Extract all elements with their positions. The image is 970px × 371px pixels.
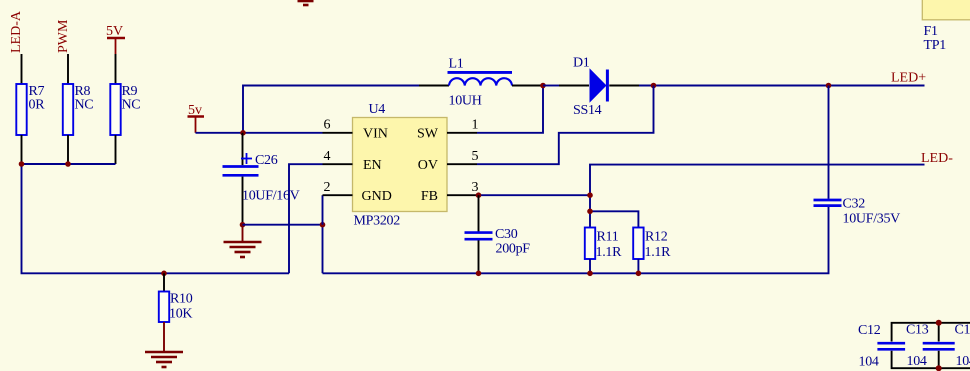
wire ground bus right	[323, 207, 829, 273]
svg-text:F1: F1	[924, 24, 938, 39]
svg-text:104: 104	[907, 354, 927, 369]
svg-text:NC: NC	[122, 97, 141, 112]
junction R11 bottom	[587, 271, 593, 277]
svg-text:C13: C13	[906, 323, 929, 338]
svg-text:C1: C1	[955, 323, 970, 338]
svg-text:OV: OV	[418, 158, 438, 173]
svg-text:R12: R12	[645, 230, 668, 245]
ground under C26	[224, 225, 262, 257]
svg-text:MP3202: MP3202	[354, 214, 401, 229]
svg-text:NC: NC	[75, 97, 94, 112]
svg-text:FB: FB	[421, 189, 438, 204]
svg-text:C26: C26	[255, 153, 278, 168]
svg-text:LED-A: LED-A	[9, 10, 24, 53]
junction R7 bus	[19, 161, 25, 167]
resistor R10	[159, 273, 193, 322]
wire bus under R7-R9	[22, 163, 116, 165]
junction GND riser	[320, 222, 326, 228]
pin 5 OV	[418, 149, 479, 173]
capacitor C30	[465, 195, 531, 273]
svg-text:EN: EN	[363, 158, 382, 173]
IC U4 (MP3202) body	[353, 102, 448, 229]
resistor R8	[63, 54, 94, 164]
capacitor C13	[906, 323, 955, 370]
junction C30 bottom	[476, 271, 482, 277]
junction R8 bus	[65, 161, 71, 167]
junction FB/LED-	[587, 192, 593, 198]
svg-text:104: 104	[956, 354, 970, 369]
wire LED+ to C32	[828, 86, 830, 199]
junction 5v/VIN/C26	[240, 130, 246, 136]
wire LED- rail	[590, 165, 925, 196]
svg-text:10K: 10K	[169, 307, 192, 322]
svg-text:C32: C32	[843, 196, 866, 211]
svg-text:SW: SW	[417, 127, 439, 142]
svg-text:104: 104	[859, 355, 879, 370]
wire C26 to GND riser	[243, 225, 323, 274]
svg-text:2: 2	[324, 180, 331, 195]
pin 4 EN	[323, 149, 382, 173]
svg-text:5: 5	[472, 149, 479, 164]
svg-text:10UF/35V: 10UF/35V	[843, 212, 901, 227]
capacitor C12	[858, 323, 905, 370]
power 5V	[106, 24, 125, 54]
pin 6 VIN	[323, 118, 388, 142]
svg-text:U4: U4	[369, 102, 386, 117]
svg-text:C12: C12	[858, 323, 881, 338]
wire riser to top rail	[243, 86, 419, 133]
svg-text:10UH: 10UH	[449, 94, 482, 109]
svg-text:SS14: SS14	[573, 103, 602, 118]
svg-text:4: 4	[324, 149, 331, 164]
junction C13 bottom	[936, 365, 942, 371]
capacitor C32	[814, 196, 901, 226]
junction diode/OV	[651, 83, 657, 89]
junction R11/R12 link	[587, 209, 593, 215]
svg-text:TP1: TP1	[924, 38, 947, 53]
pin 3 FB	[421, 180, 479, 204]
svg-text:R10: R10	[170, 292, 193, 307]
capacitor C1 labels (cut at edge)	[955, 323, 970, 370]
bottom right capacitor block wires	[892, 323, 970, 342]
wire 5v to VIN	[196, 132, 323, 134]
ground under R10	[145, 322, 183, 367]
svg-text:LED-: LED-	[921, 151, 953, 166]
junction LED+/C32	[826, 83, 832, 89]
junction R12 bottom	[636, 271, 642, 277]
wire diode to LED+	[639, 85, 925, 87]
wire SW riser	[477, 86, 543, 133]
svg-text:0R: 0R	[29, 97, 46, 112]
svg-text:GND: GND	[362, 189, 392, 204]
pin 1 SW	[417, 118, 479, 142]
svg-text:C30: C30	[495, 227, 518, 242]
junction C13 top	[936, 320, 942, 326]
svg-text:6: 6	[324, 118, 331, 133]
junction L1/SW	[540, 83, 546, 89]
wire R12 link	[590, 211, 638, 227]
svg-text:R11: R11	[597, 230, 619, 245]
svg-text:1.1R: 1.1R	[596, 245, 623, 260]
svg-text:1.1R: 1.1R	[645, 245, 672, 260]
svg-text:LED+: LED+	[891, 70, 926, 85]
resistor R9	[110, 54, 140, 164]
sheet part yellow box top right	[922, 0, 970, 20]
resistor R12	[633, 228, 671, 274]
wire GND pin down	[322, 195, 324, 225]
diode D1	[559, 56, 639, 119]
svg-text:PWM: PWM	[56, 19, 71, 53]
wire OV link	[477, 86, 654, 165]
resistor R7	[16, 54, 45, 164]
svg-text:10UF/16V: 10UF/16V	[242, 189, 300, 204]
svg-text:D1: D1	[573, 56, 590, 71]
power 5v	[188, 103, 205, 133]
junction R10 top	[161, 271, 167, 277]
junction FB/C30	[476, 192, 482, 198]
svg-text:L1: L1	[449, 57, 464, 72]
svg-text:VIN: VIN	[363, 127, 388, 142]
pin 2 GND	[323, 180, 392, 204]
resistor R11	[585, 228, 622, 274]
wire EN riser	[289, 164, 323, 273]
wire top rail to diode	[543, 85, 559, 87]
capacitor C26	[223, 133, 300, 225]
inductor L1	[419, 57, 543, 109]
wire left vertical to bottom bus	[22, 164, 290, 273]
svg-text:1: 1	[472, 118, 479, 133]
junction C26 bottom	[240, 222, 246, 228]
ground fragment top center	[298, 1, 314, 5]
svg-text:5V: 5V	[106, 24, 123, 39]
wire FB net	[477, 195, 590, 227]
svg-text:200pF: 200pF	[496, 242, 531, 257]
